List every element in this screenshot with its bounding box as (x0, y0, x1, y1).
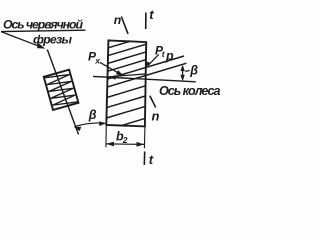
svg-text:n: n (114, 13, 122, 27)
svg-text:Ось червячной: Ось червячной (3, 18, 83, 32)
svg-text:n: n (152, 108, 160, 123)
svg-text:p: p (165, 49, 174, 63)
svg-text:t: t (149, 7, 154, 22)
svg-text:фрезы: фрезы (33, 32, 72, 46)
svg-text:t: t (149, 152, 154, 166)
svg-text:2: 2 (122, 135, 128, 145)
svg-text:Ось колеса: Ось колеса (159, 84, 221, 98)
svg-text:β: β (88, 108, 97, 122)
svg-text:β: β (189, 64, 198, 78)
